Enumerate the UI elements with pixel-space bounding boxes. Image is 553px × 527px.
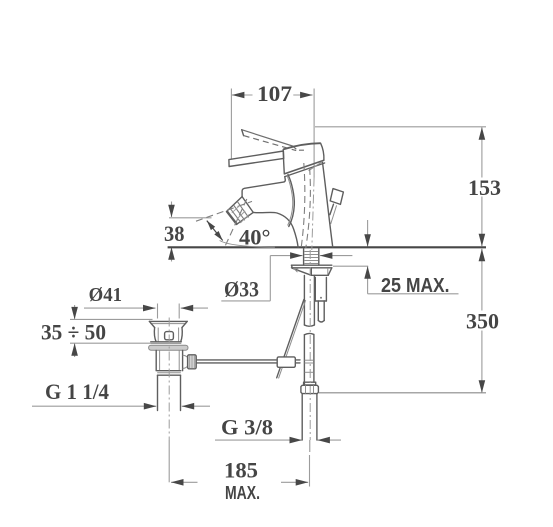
svg-text:185: 185 xyxy=(224,458,258,483)
svg-text:G 3/8: G 3/8 xyxy=(221,415,273,440)
svg-text:G 1 1/4: G 1 1/4 xyxy=(45,379,109,404)
svg-text:40°: 40° xyxy=(239,225,271,250)
svg-text:153: 153 xyxy=(468,175,501,200)
svg-text:MAX.: MAX. xyxy=(225,483,260,503)
svg-text:38: 38 xyxy=(164,221,185,246)
svg-text:Ø41: Ø41 xyxy=(89,284,122,306)
svg-text:MAX.: MAX. xyxy=(406,275,450,297)
svg-text:107: 107 xyxy=(257,81,292,106)
svg-text:35 ÷ 50: 35 ÷ 50 xyxy=(41,320,106,345)
svg-text:Ø33: Ø33 xyxy=(224,277,259,302)
svg-text:25: 25 xyxy=(381,275,401,297)
svg-text:350: 350 xyxy=(466,309,499,334)
